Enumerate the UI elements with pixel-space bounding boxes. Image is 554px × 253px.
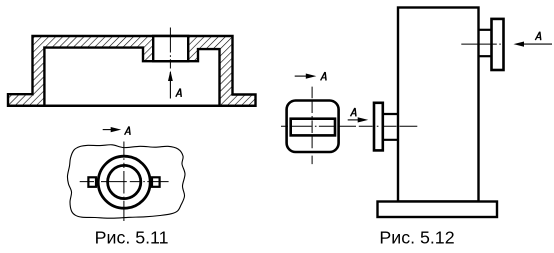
svg-text:Рис. 5.12: Рис. 5.12	[379, 228, 454, 248]
svg-text:Рис. 5.11: Рис. 5.11	[95, 228, 169, 248]
